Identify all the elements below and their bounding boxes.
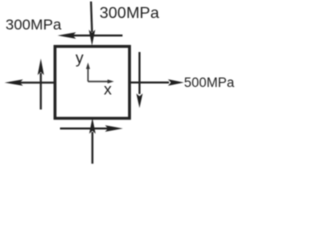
- svg-text:500MPa: 500MPa: [184, 75, 235, 90]
- svg-text:y: y: [76, 50, 84, 67]
- svg-text:300MPa: 300MPa: [100, 5, 160, 22]
- svg-text:x: x: [104, 81, 112, 98]
- svg-text:300MPa: 300MPa: [6, 17, 63, 34]
